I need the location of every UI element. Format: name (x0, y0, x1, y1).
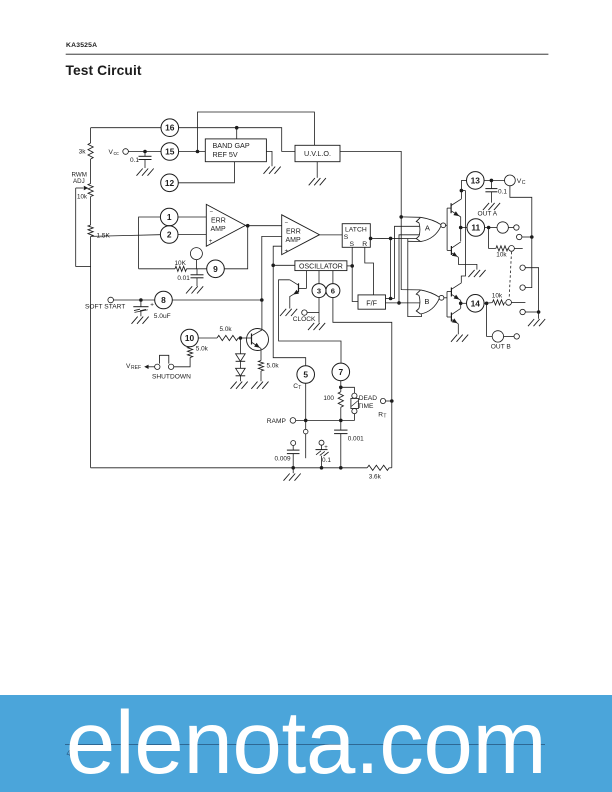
wire Vcc to pin 15 (128, 151, 161, 153)
svg-text:OSCILLATOR: OSCILLATOR (299, 263, 343, 270)
gate B (NOR) (418, 295, 421, 308)
ground Vcc cap (137, 169, 143, 176)
wire err amp1 output down to pin 9 (224, 226, 247, 269)
elenota.com watermark banner (0, 695, 612, 792)
resistor 10k load B (493, 300, 505, 305)
svg-text:DEAD: DEAD (359, 395, 378, 402)
wire rail to 1.5K (90, 197, 92, 226)
pin 16 (161, 119, 179, 137)
terminal CLOCK (302, 310, 307, 315)
svg-text:OUT A: OUT A (478, 210, 498, 217)
wire pin3 stub to oscillator (318, 271, 320, 284)
page number 4 (67, 749, 71, 758)
wire pin16 to U.V.L.O. input (179, 128, 295, 152)
wire divider tap to pin 2 (91, 235, 161, 237)
resistor 100 (338, 392, 343, 407)
pin 12 (161, 174, 179, 192)
resistor 10K feedback (139, 268, 175, 270)
switch pole B (506, 300, 512, 306)
terminal / capacitor 0.009 (291, 441, 296, 446)
svg-text:AMP: AMP (286, 237, 302, 244)
terminal OUT A jack (497, 222, 508, 233)
svg-text:0.01: 0.01 (177, 275, 190, 282)
node err amp1 output (246, 225, 282, 227)
block U.V.L.O. (295, 145, 340, 161)
svg-text:−: − (210, 210, 214, 216)
block F/F (358, 295, 386, 309)
pin 3 (312, 284, 326, 298)
svg-text:7: 7 (338, 367, 343, 377)
ground emitter resistor (251, 382, 257, 389)
page footer rule under banner (65, 744, 545, 745)
ground bus reference (292, 468, 294, 473)
pin 8 (155, 291, 173, 309)
pin 11 (467, 219, 485, 237)
wire pin7 to dead time node (340, 381, 342, 392)
transistor Q4 output B top NPN (450, 288, 452, 297)
svg-text:ADJ: ADJ (73, 178, 85, 185)
svg-text:0.1: 0.1 (498, 189, 507, 196)
svg-text:ERR: ERR (286, 228, 301, 235)
elenota.com text (0, 698, 612, 787)
wire pin14 to OUT B jack (487, 303, 493, 336)
wire pin 8 to soft start node (172, 299, 261, 301)
svg-text:F/F: F/F (366, 298, 377, 307)
wire pin16 to left rail (91, 127, 161, 129)
svg-text:+: + (285, 248, 289, 255)
svg-text:cc: cc (114, 151, 120, 157)
switch contact S2 (520, 265, 525, 270)
svg-text:3: 3 (317, 286, 321, 295)
wire pin1 to err amp1 inverting input (178, 216, 206, 218)
block BAND GAP REF 5V (205, 139, 266, 162)
pin 2 (160, 226, 178, 244)
block OSCILLATOR (295, 261, 347, 271)
svg-text:T: T (383, 413, 386, 419)
pin 13 (467, 172, 485, 190)
svg-text:15: 15 (165, 147, 175, 157)
svg-text:ERR: ERR (211, 218, 226, 225)
switch contact S1 (517, 234, 522, 239)
svg-text:2: 2 (167, 230, 172, 240)
svg-text:TIME: TIME (358, 403, 374, 410)
ground bus (91, 467, 368, 469)
wire UVLO down to gate B top input (401, 217, 420, 290)
svg-text:R: R (362, 241, 367, 248)
gate A (NOR) (418, 223, 421, 236)
pin 5 (297, 366, 315, 384)
wire soft-start to err amp2 input (262, 236, 282, 300)
wire pin1 feedback corner (139, 217, 161, 269)
diode D1 (239, 338, 241, 354)
svg-text:OUT B: OUT B (491, 344, 512, 351)
svg-text:S: S (350, 241, 355, 248)
diode D2 (239, 361, 241, 368)
wire pin10 to transistor base (198, 337, 217, 339)
resistor 5.0k below pin 10 (188, 347, 193, 358)
svg-text:10k: 10k (492, 292, 503, 299)
ground 0.01 cap (186, 286, 192, 293)
wire latch R port down to F/F top (365, 247, 374, 295)
wire err amp2 output to latch (320, 234, 343, 236)
node latch output (369, 237, 373, 241)
wire rail down to ground bus (90, 237, 92, 468)
wire ramp down to pin 5 (273, 265, 306, 365)
svg-text:5: 5 (303, 370, 308, 380)
svg-text:0.001: 0.001 (348, 436, 364, 443)
wire pin15 node up and over to U.V.L.O. top (198, 112, 315, 152)
op-amp ERR AMP 2 (282, 215, 320, 255)
wire latch output to gate A (370, 237, 416, 239)
wire UVLO to gate A top input (401, 216, 420, 218)
svg-text:12: 12 (165, 178, 175, 188)
capacitor 5.0uF soft start (140, 300, 142, 307)
switch pole A (509, 246, 515, 252)
svg-text:10K: 10K (175, 260, 187, 267)
svg-text:+: + (324, 445, 328, 451)
svg-text:5.0k: 5.0k (220, 326, 233, 333)
terminal probe stub below ramp (305, 420, 307, 429)
switch contact S3 (520, 285, 525, 290)
svg-text:11: 11 (471, 223, 480, 233)
wire pin5 down to ramp line (305, 383, 307, 420)
wire pin2 to err amp1 non-inverting input (178, 234, 206, 236)
capacitor 0.1 at Vc (490, 180, 492, 188)
transistor Q6 soft-start discharge NPN (247, 329, 269, 351)
potentiometer DEAD TIME (341, 387, 355, 393)
svg-text:5.0k: 5.0k (267, 363, 280, 370)
svg-text:3.6k: 3.6k (369, 473, 382, 480)
svg-text:3k: 3k (79, 149, 87, 156)
pin 9 (207, 260, 225, 278)
wire pin15 to band gap (179, 151, 206, 153)
svg-text:10: 10 (185, 333, 195, 343)
ground driver A (468, 270, 474, 277)
wire oscillator output to latch S line (347, 265, 352, 267)
wire band gap right stub (266, 151, 272, 166)
svg-text:0.009: 0.009 (275, 455, 291, 462)
wire U.V.L.O. bottom stub (316, 162, 318, 178)
svg-text:5.0uF: 5.0uF (154, 313, 171, 320)
resistor 3k (90, 128, 92, 143)
terminal Vcc (123, 149, 129, 155)
transistor Q2 output A top NPN (450, 203, 452, 213)
pin 14 (467, 295, 485, 313)
svg-text:B: B (424, 297, 429, 306)
ground driver B (451, 335, 457, 342)
terminal RT (380, 398, 385, 403)
resistor 5.0k emitter (258, 361, 263, 372)
svg-text:16: 16 (165, 123, 175, 133)
wire pin6 to RT line (333, 298, 392, 468)
capacitor 0.1 polarized (319, 440, 324, 445)
pin 1 (160, 208, 178, 226)
block LATCH (342, 224, 370, 248)
node ramp at oscillator input (271, 264, 275, 268)
ground U.V.L.O. (309, 178, 315, 185)
svg-text:SHUTDOWN: SHUTDOWN (152, 373, 191, 380)
wire clock to pin3 line (307, 312, 319, 314)
svg-text:LATCH: LATCH (345, 227, 367, 234)
svg-text:BAND GAP: BAND GAP (213, 141, 250, 150)
pin 15 (161, 143, 179, 161)
svg-text:SOFT START: SOFT START (85, 303, 125, 310)
wire pin14 node (484, 302, 493, 305)
svg-text:S: S (344, 234, 349, 241)
switch SHUTDOWN (168, 364, 173, 369)
svg-text:REF: REF (131, 365, 141, 371)
pin 6 (326, 284, 340, 298)
svg-text:KA3525A: KA3525A (66, 42, 97, 49)
svg-text:T: T (298, 385, 301, 391)
capacitor 0.1 at Vcc (144, 152, 146, 157)
ground soft start cap (132, 317, 138, 324)
wire Vc to switch rail (510, 186, 532, 288)
wire U.V.L.O. output to gate bus (340, 151, 401, 217)
ground diodes (231, 382, 237, 389)
op-amp ERR AMP 1 (206, 204, 245, 246)
wire 5.0k to shutdown switch (174, 358, 190, 367)
ground band gap (264, 167, 270, 174)
header rule (66, 53, 549, 55)
pin 10 (181, 329, 199, 347)
svg-text:CLOCK: CLOCK (293, 316, 316, 323)
svg-text:14: 14 (471, 298, 481, 308)
terminal Vc (505, 175, 516, 186)
svg-text:0.1: 0.1 (322, 457, 331, 464)
svg-text:U.V.L.O.: U.V.L.O. (304, 149, 331, 158)
wire pin13 to Vc (484, 179, 505, 181)
switch contact S4 (520, 309, 525, 314)
wire Vc rail for drivers (461, 190, 465, 192)
wire band gap top feed (236, 128, 238, 139)
svg-text:0.1: 0.1 (130, 157, 139, 164)
wire ramp line (296, 419, 341, 421)
resistor 10k load A (489, 228, 496, 249)
ganged switch dashed link (509, 252, 511, 297)
svg-text:1: 1 (167, 212, 172, 222)
wire F/F output Q to gates (386, 298, 395, 300)
svg-text:Test Circuit: Test Circuit (66, 63, 142, 78)
transistor Q1 oscillator discharge PNP (298, 283, 300, 292)
resistor 5.0k base (217, 335, 238, 340)
svg-text:RAMP: RAMP (267, 418, 287, 425)
transistor Q5 output B bottom NPN (450, 313, 452, 322)
svg-text:10k: 10k (77, 193, 88, 200)
wire pin3 down to ground (318, 298, 320, 323)
svg-text:5.0k: 5.0k (196, 345, 209, 352)
svg-text:+: + (209, 238, 213, 245)
ground clock (308, 323, 314, 330)
svg-text:6: 6 (331, 286, 335, 295)
svg-text:+: + (150, 301, 154, 308)
resistor 3.6k (367, 465, 389, 470)
transistor Q3 output A bottom NPN (450, 246, 452, 255)
wire soft start to pin 8 (114, 299, 155, 301)
wire latch output to F/F trigger (390, 238, 392, 298)
capacitor 0.01 (196, 269, 198, 275)
svg-text:8: 8 (161, 295, 166, 305)
resistor 1.5K (88, 225, 93, 237)
ground Vc cap (483, 203, 489, 210)
wire pin11 to OUT A jack (484, 227, 497, 229)
svg-text:−: − (285, 220, 289, 226)
wire gate A output to driver bases (446, 224, 448, 226)
svg-text:AMP: AMP (211, 226, 227, 233)
ground switch common (538, 312, 540, 319)
wire latch output branch down to gate B bottom input (408, 238, 422, 316)
svg-text:C: C (522, 180, 526, 186)
wire latch S port down to F/F (352, 247, 358, 301)
capacitor 0.001 (340, 420, 342, 430)
svg-text:100: 100 (323, 395, 334, 402)
wire gate B output to driver bases (444, 297, 447, 299)
terminal OUT B jack (492, 331, 503, 342)
wire band gap bottom to pin 12 (178, 162, 234, 183)
wire F/F output Qbar to gates (386, 302, 420, 304)
pin 7 (332, 363, 350, 381)
svg-text:13: 13 (471, 175, 481, 185)
terminal SOFT START (108, 297, 114, 303)
wire ramp to err amp2 + input (273, 246, 282, 265)
svg-text:10k: 10k (496, 252, 507, 259)
ground PNP emitter (280, 309, 286, 316)
terminal comp (190, 248, 202, 260)
svg-text:A: A (425, 223, 431, 232)
svg-text:REF 5V: REF 5V (213, 150, 238, 159)
wire pin6 stub to oscillator (332, 271, 334, 284)
svg-text:9: 9 (213, 264, 218, 274)
